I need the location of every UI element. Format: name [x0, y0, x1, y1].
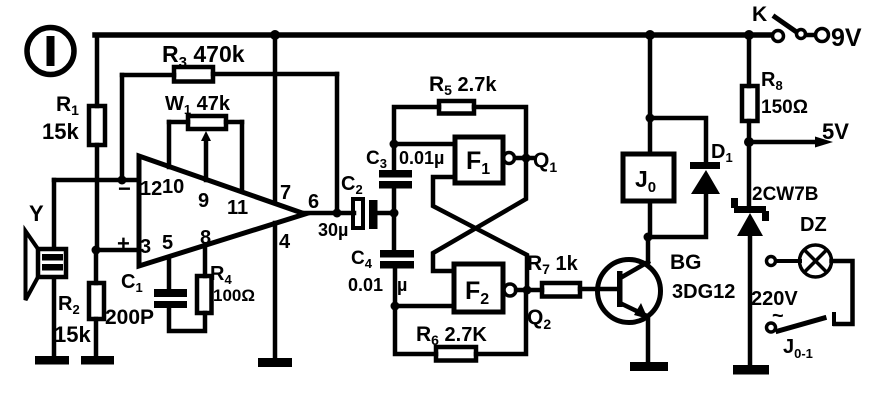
node F2 input [391, 302, 400, 311]
zener diode 2CW7B [731, 198, 769, 236]
svg-text:30µ: 30µ [318, 220, 348, 240]
svg-text:R3 470k: R3 470k [162, 41, 245, 71]
wire C4 down to F2 input node [393, 268, 398, 306]
svg-text:100Ω: 100Ω [213, 286, 255, 305]
svg-text:4: 4 [279, 231, 291, 253]
wire R1 branch from rail [95, 35, 100, 106]
wire op-amp output [305, 211, 354, 216]
node output feedback junction [333, 209, 342, 218]
svg-text:9V: 9V [831, 24, 862, 52]
wire R3 left horizontal [122, 73, 174, 78]
svg-text:BG: BG [670, 251, 702, 274]
svg-text:DZ: DZ [800, 214, 827, 236]
wire R2 top [94, 250, 99, 283]
node Q2 [523, 286, 532, 295]
svg-text:W1 47k: W1 47k [165, 93, 231, 117]
node rail J0 branch [645, 30, 655, 40]
svg-text:R7 1k: R7 1k [527, 252, 579, 277]
wire R8 bottom [747, 121, 752, 142]
ground speaker [35, 356, 69, 365]
ground emitter [630, 362, 668, 371]
wire speaker drop [52, 180, 57, 357]
node Q1 [522, 154, 531, 163]
node plus-input junction [92, 246, 101, 255]
wire down to zener [747, 142, 752, 206]
resistor R3 [174, 67, 213, 82]
svg-text:10: 10 [162, 176, 184, 198]
wire collector up [646, 237, 651, 262]
node rail pin7 branch [270, 30, 280, 40]
wire R5 loop [394, 107, 439, 144]
svg-text:5V: 5V [822, 119, 849, 144]
svg-text:0.01: 0.01 [348, 275, 383, 295]
svg-text:200P: 200P [105, 306, 154, 329]
speaker Y [26, 231, 67, 300]
bubble F2 output [504, 284, 516, 296]
wire emitter down [646, 317, 651, 363]
svg-text:K: K [752, 3, 767, 26]
svg-text:2CW7B: 2CW7B [752, 184, 819, 205]
capacitor C4 [380, 250, 414, 269]
node F1 input [390, 140, 399, 149]
wire D1 top link [650, 118, 706, 162]
wire rail branch to J0 [648, 35, 653, 154]
wire C1 bottom loop to R4 [169, 308, 205, 331]
wire pin4 to ground [273, 223, 278, 359]
wire 5V output with arrow [749, 140, 820, 145]
svg-text:15k: 15k [54, 322, 91, 347]
wire rail branch to pin7 [273, 35, 278, 202]
wire non-inverting input [96, 248, 139, 253]
resistor R7 [542, 283, 580, 297]
relay contact J0-1 [767, 314, 835, 332]
svg-text:0.01µ: 0.01µ [399, 148, 444, 168]
resistor R1 [89, 106, 105, 145]
capacitor C3 [379, 170, 412, 189]
ground R2 [81, 356, 114, 365]
svg-text:−: − [118, 176, 131, 201]
svg-text:12: 12 [140, 178, 162, 200]
wire F1 output to Q1 [515, 156, 534, 161]
svg-text:3: 3 [140, 236, 151, 258]
wire lamp to contact [832, 261, 853, 324]
wire F1 input1 [394, 142, 455, 147]
wire inverting input horizontal [54, 178, 139, 183]
op-amp U1 triangle [139, 156, 305, 266]
resistor R4 [197, 276, 212, 313]
svg-text:3DG12: 3DG12 [672, 281, 735, 303]
wire pin8 to R4 [203, 245, 208, 276]
wire D1 bottom to collector node [648, 194, 706, 237]
svg-text:µ: µ [397, 275, 407, 295]
svg-text:+: + [117, 231, 130, 256]
wire C3 up to F1 input node [392, 144, 397, 170]
lamp DZ [767, 245, 832, 277]
svg-text:150Ω: 150Ω [761, 97, 808, 118]
node rail R8 branch [744, 30, 754, 40]
transistor Q BG 3DG12 [598, 260, 661, 323]
wire cross-coupling Q2 to F1 input2 [433, 177, 527, 290]
svg-text:9: 9 [198, 190, 209, 212]
node D1 top junction [646, 114, 655, 123]
wire R7 to base [580, 287, 618, 292]
resistor R6 [436, 347, 476, 361]
wire F2 input2 [395, 304, 454, 309]
capacitor C2 electrolytic [353, 199, 378, 229]
switch K [773, 17, 829, 42]
svg-text:Y: Y [29, 201, 44, 226]
capacitor C1 [154, 289, 187, 308]
diode D1 [690, 162, 720, 194]
relay J0 [623, 154, 674, 201]
wire F2 output to R7 [516, 288, 542, 293]
node R3 left junction [118, 176, 127, 185]
node C3 C4 junction [390, 209, 399, 218]
wire R1 bottom down to R2 [95, 145, 100, 250]
wire R3 left vertical [120, 75, 125, 180]
wire R3 right vertical down to output [335, 74, 340, 213]
svg-text:7: 7 [280, 182, 291, 204]
wire R5 right [474, 107, 526, 158]
svg-text:R6 2.7K: R6 2.7K [416, 323, 487, 348]
svg-text:~: ~ [772, 305, 784, 327]
wire R6 right [476, 290, 526, 354]
bubble F1 output [504, 153, 515, 164]
svg-text:6: 6 [308, 191, 319, 213]
potentiometer W1 [169, 116, 242, 191]
wire pin5 to C1 [167, 258, 172, 290]
wire C2 to node [377, 211, 395, 216]
wire zener to ground [748, 236, 753, 366]
wire R2 bottom [94, 319, 99, 357]
svg-text:R5 2.7k: R5 2.7k [429, 73, 497, 98]
wire rail to R8 [747, 35, 752, 86]
gate F1 [455, 137, 503, 183]
wire node up to C3 [392, 190, 397, 213]
node collector [644, 233, 653, 242]
svg-text:5: 5 [162, 232, 173, 254]
wire R3 right horizontal [213, 72, 337, 77]
node 5V junction [744, 137, 754, 147]
svg-text:8: 8 [200, 227, 211, 249]
ground zener [733, 365, 769, 375]
resistor R5 [439, 101, 474, 114]
gate F2 [454, 264, 503, 312]
figure marker circle 1 [27, 28, 74, 75]
resistor R2 [89, 283, 104, 319]
wire cross-coupling Q1 to F2 input [433, 158, 526, 271]
wire top supply rail [95, 32, 772, 38]
ground pin4 [258, 358, 292, 367]
resistor R8 [742, 86, 758, 121]
svg-text:11: 11 [227, 197, 248, 219]
wire J0 bottom to collector node [648, 201, 653, 237]
svg-text:15k: 15k [42, 119, 79, 144]
wire R6 loop left [395, 306, 436, 354]
wire node down to C4 [392, 213, 397, 250]
